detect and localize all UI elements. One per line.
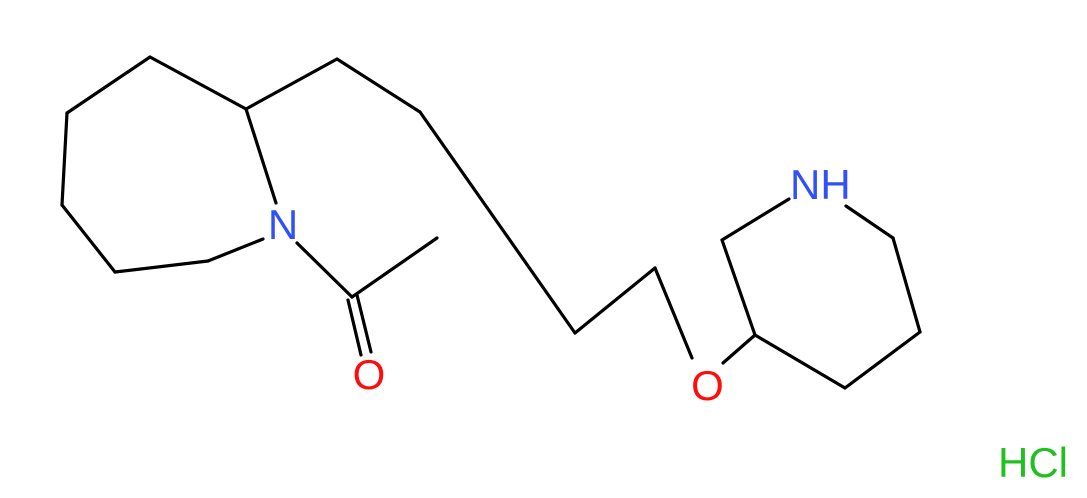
piperidine ring: bond P3-P4 — [755, 335, 845, 388]
svg-text:HCl: HCl — [998, 439, 1068, 486]
svg-text:NH: NH — [790, 161, 851, 208]
carbonyl double bond C=O right line b — [357, 295, 371, 352]
chain bond L4-X2 long diagonal — [420, 112, 575, 333]
piperidine ring: bond P5-P6 — [893, 238, 920, 332]
azepane ring: bond C6h-C7h — [115, 261, 208, 272]
piperidine ring: bond P2-P3 — [722, 240, 755, 335]
svg-text:O: O — [691, 362, 724, 409]
svg-text:N: N — [268, 201, 298, 248]
piperidine ring: bond P4-P5 — [845, 332, 920, 388]
carbonyl double bond C=O left line a — [348, 300, 361, 355]
ether bond O2-P3 — [723, 335, 755, 363]
azepane ring: bond C5h-C6h — [62, 205, 115, 272]
piperidine ring: bond N2-P2 — [722, 199, 789, 240]
azepane ring: bond C4h-C5h — [62, 113, 67, 205]
chain bond C2-L3 (substituent peak) — [246, 59, 337, 109]
azepane ring: bond C2-C3h — [150, 57, 246, 109]
amide bond L6-N1 — [297, 243, 352, 297]
piperidine ring: bond P6-N2 — [846, 206, 893, 238]
azepane ring: bond C3h-C4h — [67, 57, 150, 113]
chain bond X2-X3 — [575, 268, 655, 333]
azepane ring: bond C7h-N1 — [208, 239, 263, 261]
acetyl methyl bond L6-L5 — [352, 238, 437, 297]
azepane ring: bond N1-C2 — [246, 109, 276, 203]
chain bond X3-O2 — [655, 268, 692, 358]
svg-text:O: O — [353, 351, 386, 398]
chain bond L3-L4 — [337, 59, 420, 112]
